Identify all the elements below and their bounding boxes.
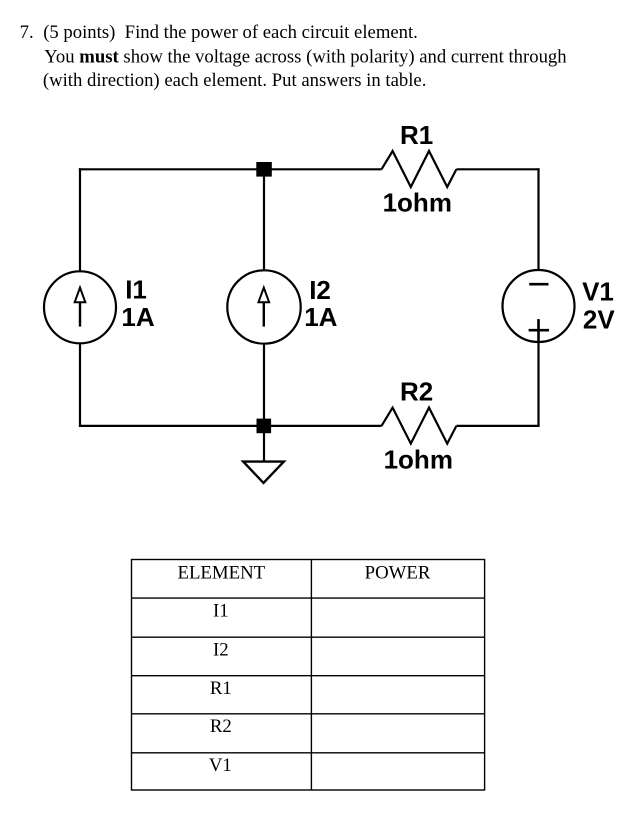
svg-text:V1: V1	[209, 755, 232, 776]
svg-text:1ohm: 1ohm	[384, 444, 453, 474]
resistor R2 zigzag	[382, 408, 457, 444]
svg-text:R1: R1	[210, 678, 232, 699]
svg-text:7.(5 points) Find the power o: 7.(5 points) Find the power of each circ…	[20, 22, 418, 43]
svg-text:1A: 1A	[121, 302, 154, 332]
svg-text:1ohm: 1ohm	[383, 188, 452, 218]
wire ground stub: bottom node to ground triangle	[263, 430, 265, 462]
current source I2 arrow	[259, 288, 270, 327]
svg-text:I1: I1	[213, 600, 229, 621]
svg-text:You must show the voltage acro: You must show the voltage across (with p…	[44, 46, 567, 67]
svg-text:V1: V1	[582, 277, 614, 307]
svg-text:1A: 1A	[304, 302, 337, 332]
svg-text:2V: 2V	[583, 305, 615, 335]
wire middle vertical upper: top node to I2 top	[263, 169, 265, 270]
voltage source V1 plus sign	[529, 319, 549, 342]
wire bottom-left: bottom-left corner to R2 left	[79, 425, 382, 427]
svg-text:R2: R2	[210, 716, 232, 737]
voltage source V1 circle	[503, 270, 575, 342]
current source I2 circle	[227, 270, 300, 343]
wire top-left: top-left corner to R1 left	[79, 168, 382, 170]
svg-text:POWER: POWER	[365, 563, 431, 584]
wire bottom-right: R2 right to bottom-right corner	[456, 425, 539, 427]
current source I1 arrow	[75, 288, 86, 327]
svg-text:(with direction) each element.: (with direction) each element. Put answe…	[43, 70, 427, 91]
resistor R1 zigzag	[382, 151, 457, 187]
wire right vertical upper: top-right corner to V1 top	[537, 168, 539, 270]
wire right vertical lower: V1 bottom to bottom-right corner	[537, 342, 539, 427]
voltage source V1 minus sign	[529, 283, 548, 286]
wire middle vertical lower: I2 bottom to bottom node	[263, 343, 265, 426]
svg-text:R1: R1	[400, 120, 433, 150]
node bottom junction (filled square)	[257, 419, 272, 434]
wire left vertical upper: corner to I1 top	[79, 168, 81, 271]
wire top-right: R1 right to top-right corner	[456, 168, 539, 170]
answer table grid	[132, 560, 485, 791]
answer table texts	[177, 563, 430, 777]
current source I1 circle	[44, 271, 116, 343]
svg-text:ELEMENT: ELEMENT	[177, 563, 265, 584]
wire left vertical lower: I1 bottom to bottom-left corner	[79, 343, 81, 427]
svg-text:I2: I2	[213, 639, 229, 660]
svg-text:I1: I1	[125, 275, 147, 305]
ground symbol	[243, 462, 284, 483]
svg-text:I2: I2	[309, 275, 331, 305]
svg-text:R2: R2	[400, 376, 433, 406]
node top junction (filled square)	[256, 162, 272, 177]
